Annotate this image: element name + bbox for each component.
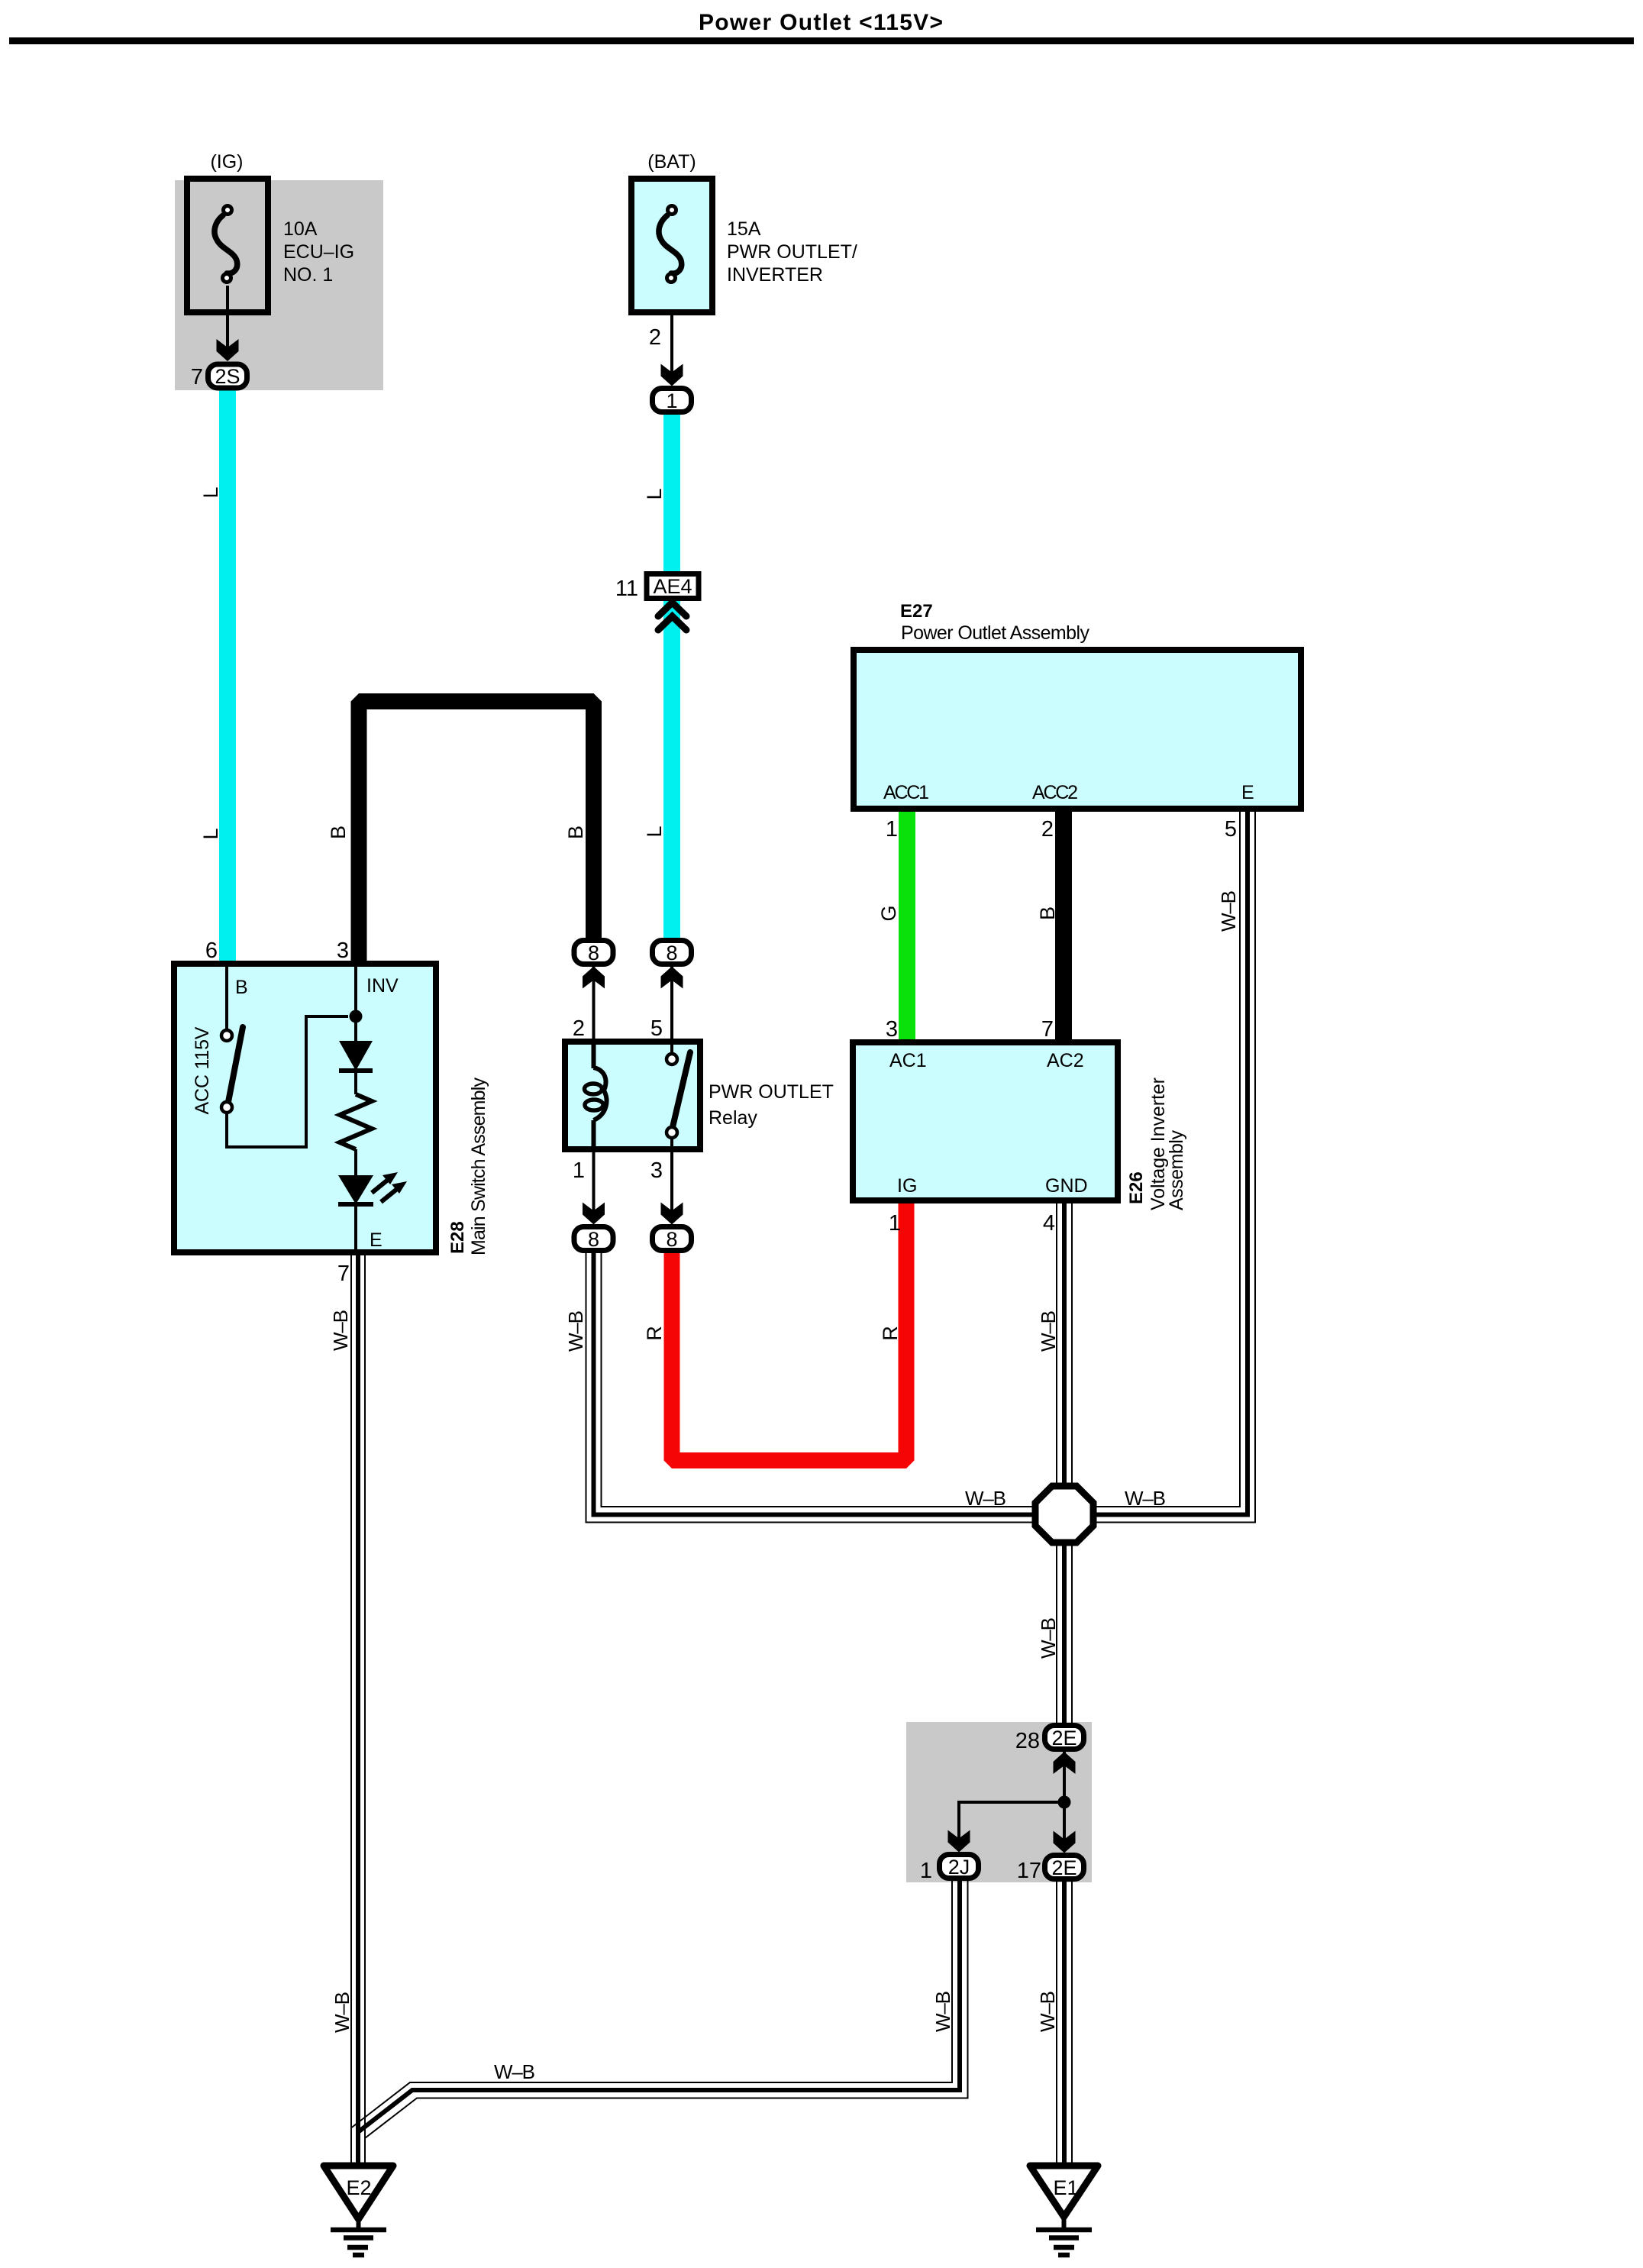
wire L from fuse PWR OUTLET to relay pin 5 (cyan) (663, 414, 680, 939)
svg-text:10A: 10A (283, 218, 318, 240)
svg-text:8: 8 (588, 1228, 599, 1251)
arrow into relay pin 5 oval (661, 967, 683, 989)
svg-text:Main Switch Assembly: Main Switch Assembly (468, 1077, 489, 1256)
connector oval 2J (940, 1855, 979, 1879)
svg-text:15A: 15A (727, 218, 761, 240)
arrow into connector 1 (661, 364, 683, 386)
connector AE4 (647, 574, 699, 599)
E27 Power Outlet Assembly box (854, 650, 1301, 809)
svg-text:Relay: Relay (709, 1107, 757, 1129)
svg-text:2E: 2E (1051, 1856, 1077, 1879)
connector oval 2E pin 17 (1045, 1856, 1084, 1879)
thin lead fuse ECU-IG to connector 2S (226, 286, 229, 359)
connector oval 8 (relay pin 2) (574, 941, 613, 964)
fuse 10A ECU-IG NO.1 body (187, 179, 268, 312)
wire W-B from junction octagon to connector 2E pin 28 (1057, 1539, 1072, 1724)
wire W-B from connector 2J pin 1 joining ground E2 wire (351, 1880, 968, 2138)
svg-text:6: 6 (205, 939, 218, 963)
svg-text:R: R (643, 1326, 666, 1341)
arrow into connector 2E pin 17 (1054, 1831, 1076, 1853)
svg-text:PWR OUTLET/: PWR OUTLET/ (727, 241, 857, 263)
thin lead connector 2E pin 28 down to junction dot (1063, 1752, 1066, 1802)
thin lead fuse PWR OUTLET to connector 1 (670, 286, 673, 383)
wire W-B from connector 2E pin 17 to ground E1 (1057, 1881, 1072, 2167)
svg-text:4: 4 (1043, 1211, 1055, 1236)
svg-text:INVERTER: INVERTER (727, 264, 823, 286)
svg-text:1: 1 (889, 1211, 901, 1236)
svg-text:W–B: W–B (1036, 1991, 1059, 2032)
ground E2 (324, 2166, 393, 2219)
svg-text:W–B: W–B (1037, 1617, 1060, 1659)
svg-text:E: E (1241, 782, 1254, 803)
svg-text:3: 3 (886, 1017, 898, 1042)
svg-text:L: L (643, 825, 666, 837)
svg-text:8: 8 (666, 942, 677, 964)
svg-text:R: R (879, 1326, 902, 1341)
svg-text:G: G (877, 905, 900, 921)
svg-text:Power Outlet <115V>: Power Outlet <115V> (699, 10, 943, 35)
svg-text:NO. 1: NO. 1 (283, 264, 333, 286)
svg-text:8: 8 (666, 1228, 677, 1251)
E28 Main Switch Assembly box (174, 964, 436, 1252)
fuse 15A PWR OUTLET/INVERTER body (631, 179, 712, 312)
svg-text:2: 2 (649, 325, 661, 350)
wire W-B from E27 E pin 5 to junction octagon (1090, 809, 1255, 1523)
connector oval 8 (relay pin 3) (653, 1227, 692, 1251)
wire W-B from E28 pin 7 to ground E2 (351, 1252, 365, 2167)
svg-text:L: L (643, 488, 666, 499)
svg-text:PWR OUTLET: PWR OUTLET (709, 1081, 834, 1103)
resistor inside E28 (340, 1094, 372, 1149)
svg-text:B: B (327, 825, 350, 839)
svg-text:INV: INV (366, 975, 399, 997)
LED indicator inside E28 (338, 1175, 373, 1204)
arrow into connector 2J pin 1 (948, 1830, 970, 1853)
svg-text:7: 7 (191, 365, 203, 389)
svg-text:W–B: W–B (1125, 1487, 1166, 1510)
svg-text:IG: IG (897, 1175, 917, 1197)
svg-text:E2: E2 (346, 2176, 371, 2199)
svg-text:Assembly: Assembly (1166, 1130, 1187, 1211)
relay PWR OUTLET box (565, 1042, 700, 1149)
fuse PWR OUTLET element (659, 215, 682, 273)
svg-text:E: E (370, 1229, 383, 1251)
svg-text:Power Outlet Assembly: Power Outlet Assembly (901, 622, 1090, 644)
arrow into connector 2S (217, 339, 239, 361)
connector oval 2S (208, 364, 247, 388)
svg-text:2: 2 (1041, 817, 1054, 842)
wire W-B from E26 GND pin 4 to junction octagon (1057, 1200, 1072, 1489)
arrow into relay pin 3 oval (661, 1203, 683, 1225)
connector oval 1 (653, 389, 692, 412)
thin lead junction dot to connector 2E pin 17 (1063, 1802, 1066, 1851)
wire L from 2S to E28 pin 6 (cyan) (219, 389, 236, 964)
svg-text:AC1: AC1 (889, 1050, 927, 1071)
svg-text:(IG): (IG) (210, 151, 243, 173)
node INV junction dot (350, 1010, 363, 1023)
svg-text:B: B (1036, 906, 1059, 920)
svg-text:2J: 2J (948, 1856, 970, 1879)
arrow into relay pin 2 oval (583, 967, 605, 989)
wire G from E27 ACC1 pin 1 to E26 AC1 pin 3 (green) (899, 809, 915, 1042)
svg-text:2E: 2E (1051, 1727, 1077, 1749)
thin lead relay pin 1 (592, 1149, 596, 1223)
relay coil (592, 1042, 596, 1068)
svg-text:1: 1 (886, 817, 898, 842)
svg-text:8: 8 (588, 942, 599, 964)
thin lead relay pin 3 (670, 1149, 673, 1223)
svg-text:AE4: AE4 (653, 575, 692, 598)
svg-text:17: 17 (1017, 1859, 1041, 1883)
arrow into connector 2E pin 28 (1054, 1752, 1076, 1774)
svg-text:1: 1 (573, 1158, 585, 1183)
E26 Voltage Inverter Assembly box (853, 1042, 1118, 1200)
svg-text:W–B: W–B (331, 1992, 353, 2033)
svg-text:2S: 2S (215, 365, 240, 388)
wire R from relay pin 3 to E26 IG pin 1 (red) (672, 1200, 906, 1461)
svg-text:3: 3 (337, 939, 349, 963)
svg-text:B: B (235, 977, 248, 998)
svg-text:L: L (199, 828, 222, 839)
svg-text:W–B: W–B (494, 2060, 535, 2083)
connector oval 2E pin 28 (1045, 1726, 1084, 1749)
arrow into relay pin 1 oval (583, 1203, 605, 1225)
svg-text:ACC2: ACC2 (1032, 782, 1078, 803)
wire B from E28 pin 3 to relay pin 2 (black) (359, 702, 594, 964)
svg-text:E26: E26 (1126, 1171, 1147, 1204)
svg-text:W–B: W–B (931, 1991, 954, 2032)
svg-text:7: 7 (1041, 1017, 1054, 1042)
svg-text:B: B (564, 825, 587, 839)
svg-text:ECU–IG: ECU–IG (283, 241, 354, 263)
svg-text:7: 7 (337, 1262, 350, 1286)
gray block around connectors 2J/2E (906, 1722, 1092, 1882)
title underline (9, 37, 1634, 44)
thin lead junction dot to connector 2J pin 1 (959, 1802, 1064, 1850)
svg-text:W–B: W–B (564, 1310, 587, 1352)
svg-text:1: 1 (920, 1859, 932, 1883)
svg-text:E27: E27 (900, 601, 933, 622)
junction octagon W-B (1035, 1486, 1093, 1543)
relay contact (670, 1042, 673, 1054)
fuse ECU-IG element (215, 215, 237, 273)
svg-text:28: 28 (1015, 1729, 1040, 1753)
svg-text:1: 1 (666, 389, 677, 412)
svg-text:E1: E1 (1053, 2176, 1078, 2199)
svg-text:W–B: W–B (1037, 1310, 1060, 1352)
junction dot (1058, 1796, 1071, 1809)
svg-text:11: 11 (615, 577, 638, 601)
svg-text:E28: E28 (447, 1221, 468, 1254)
thin lead relay pin 2 (592, 966, 596, 1042)
diode inside E28 (354, 964, 357, 1041)
svg-text:5: 5 (650, 1016, 663, 1041)
svg-text:ACC1: ACC1 (883, 782, 929, 803)
svg-text:W–B: W–B (965, 1487, 1006, 1510)
wire W-B from relay pin 1 to junction octagon (586, 1253, 1039, 1523)
svg-text:5: 5 (1225, 817, 1237, 842)
connector oval 8 (relay pin 5) (653, 941, 692, 964)
ground E1 (1030, 2166, 1098, 2217)
connector oval 8 (relay pin 1) (574, 1227, 613, 1251)
svg-text:L: L (199, 486, 222, 498)
svg-text:3: 3 (650, 1158, 663, 1183)
thin lead relay pin 5 (670, 966, 673, 1042)
svg-text:W–B: W–B (1217, 890, 1240, 932)
svg-text:W–B: W–B (329, 1310, 352, 1351)
svg-text:AC2: AC2 (1047, 1050, 1084, 1071)
gray block around fuse ECU-IG (175, 180, 383, 390)
svg-text:GND: GND (1045, 1175, 1088, 1197)
svg-text:ACC 115V: ACC 115V (192, 1026, 213, 1114)
switch ACC 115V inside E28 (225, 964, 228, 1030)
svg-text:2: 2 (573, 1016, 585, 1041)
chevron pass-through under AE4 (658, 603, 686, 630)
wire B from E27 ACC2 pin 2 to E26 AC2 pin 7 (black) (1055, 809, 1072, 1042)
svg-text:(BAT): (BAT) (647, 151, 696, 173)
